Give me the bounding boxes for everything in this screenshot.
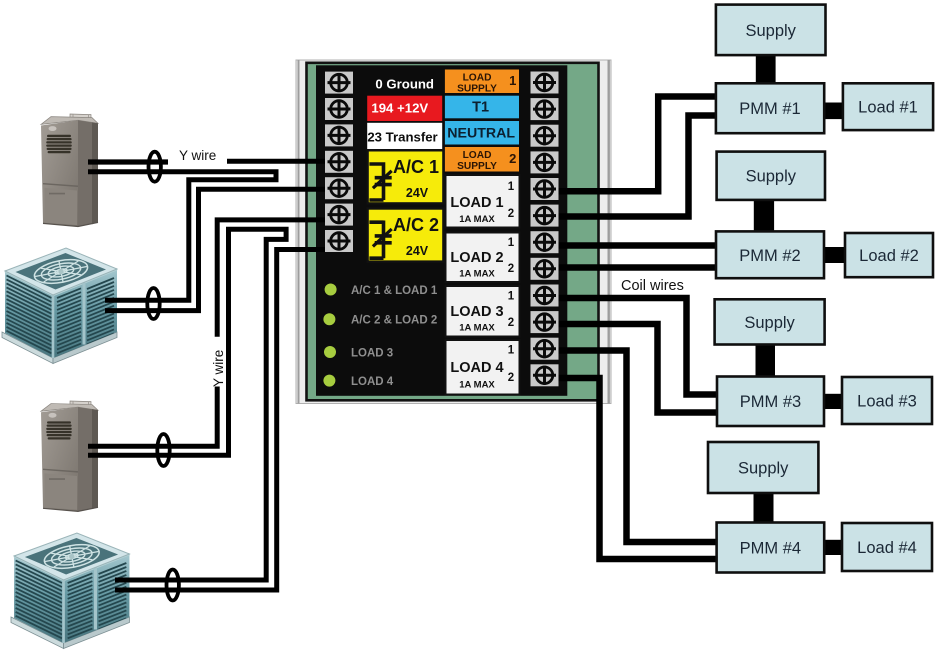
svg-text:Load #2: Load #2 xyxy=(859,247,919,265)
box PMM #3 xyxy=(717,377,824,427)
svg-text:0 Ground: 0 Ground xyxy=(375,76,434,91)
svg-text:1: 1 xyxy=(508,345,515,357)
svg-text:24V: 24V xyxy=(406,186,429,200)
label 194 +12V xyxy=(367,96,442,121)
svg-text:1A MAX: 1A MAX xyxy=(459,214,495,225)
svg-text:PMM #4: PMM #4 xyxy=(740,540,801,558)
choke loop furnace2 xyxy=(157,434,169,466)
terminal screw R4 xyxy=(531,151,559,173)
svg-text:194 +12V: 194 +12V xyxy=(371,100,428,115)
terminal screw R5 xyxy=(531,178,559,200)
coil wire R7 to PMM2 xyxy=(550,242,716,249)
LED A/C2&LOAD2 xyxy=(323,313,335,325)
svg-text:A/C 1: A/C 1 xyxy=(393,157,439,177)
bus Supply1-PMM1 xyxy=(756,53,776,85)
box Supply 3 xyxy=(715,299,825,344)
svg-text:1A MAX: 1A MAX xyxy=(459,269,495,280)
module black terminal panel xyxy=(316,65,567,396)
svg-text:LOAD 4: LOAD 4 xyxy=(351,376,394,388)
wire furnace2 to condenser2 xyxy=(88,229,286,580)
svg-text:SUPPLY: SUPPLY xyxy=(457,84,497,95)
choke loop condenser2 xyxy=(167,570,179,601)
svg-text:SUPPLY: SUPPLY xyxy=(457,161,497,172)
svg-text:2: 2 xyxy=(508,263,514,275)
box Supply 1 xyxy=(716,5,826,56)
svg-text:1A MAX: 1A MAX xyxy=(459,380,495,391)
terminal block LOAD 3 xyxy=(446,286,520,337)
terminal screw R3 xyxy=(531,125,559,147)
svg-text:1A MAX: 1A MAX xyxy=(459,323,495,334)
svg-text:Load #1: Load #1 xyxy=(858,99,918,117)
svg-text:PMM #3: PMM #3 xyxy=(740,393,801,411)
terminal block LOAD 2 xyxy=(446,233,520,283)
bus PMM4-Load4 xyxy=(822,540,844,555)
svg-text:Load #4: Load #4 xyxy=(857,539,917,557)
svg-text:LOAD 3: LOAD 3 xyxy=(351,347,393,359)
bus PMM3-Load3 xyxy=(822,394,844,409)
coil wire R9 to PMM3 xyxy=(550,298,716,395)
svg-text:Coil wires: Coil wires xyxy=(621,278,684,294)
terminal screw R12 xyxy=(531,364,559,386)
box Supply 4 xyxy=(708,442,818,493)
svg-text:LOAD 2: LOAD 2 xyxy=(450,250,503,266)
box Load #1 xyxy=(843,83,933,130)
choke loop condenser1 xyxy=(147,288,159,319)
svg-text:Supply: Supply xyxy=(744,314,795,332)
condenser A/C 1 xyxy=(2,248,117,364)
svg-text:23 Transfer: 23 Transfer xyxy=(367,129,437,144)
relay A/C 2 xyxy=(368,209,444,262)
wire Y furnace1 to terminal 4 (segment b) xyxy=(227,159,341,164)
svg-text:Load #3: Load #3 xyxy=(857,393,917,411)
terminal block LOAD 4 xyxy=(446,340,520,395)
label 23 Transfer xyxy=(367,123,442,149)
LED A/C1&LOAD1 xyxy=(325,284,337,296)
terminal screw R7 xyxy=(531,231,559,253)
bus PMM2-Load2 xyxy=(822,247,845,263)
svg-text:LOAD: LOAD xyxy=(463,73,492,84)
terminal screw R10 xyxy=(531,311,559,333)
svg-text:1: 1 xyxy=(509,73,516,88)
coil wire R6 to PMM1 xyxy=(550,116,716,217)
terminal screw L3 xyxy=(325,124,353,146)
module outer frame xyxy=(296,60,611,404)
svg-text:LOAD 4: LOAD 4 xyxy=(450,360,503,376)
svg-text:Supply: Supply xyxy=(746,168,797,186)
terminal screw L2 xyxy=(325,98,353,120)
terminal block LOAD 1 xyxy=(446,175,520,228)
furnace 1 xyxy=(41,114,98,227)
svg-text:2: 2 xyxy=(508,208,514,220)
coil wire R10 to PMM3 xyxy=(550,324,716,413)
coil wire R8 to PMM2 xyxy=(550,264,716,271)
module green board xyxy=(307,63,599,401)
terminal screw L1 xyxy=(325,72,353,94)
wire terminal 6 to furnace2 (upper, with label gap) xyxy=(217,220,341,337)
label LOAD SUPPLY 2 xyxy=(445,147,519,172)
svg-text:Y wire: Y wire xyxy=(179,148,216,163)
terminal screw L7 xyxy=(325,230,353,252)
svg-text:2: 2 xyxy=(508,317,514,329)
svg-text:LOAD 3: LOAD 3 xyxy=(450,304,503,320)
terminal screw L4 xyxy=(325,151,353,173)
wire furnace1 to condenser1 xyxy=(88,172,276,300)
terminal screw L6 xyxy=(325,204,353,226)
wire terminal 5 to condenser1 xyxy=(105,189,341,310)
svg-text:Supply: Supply xyxy=(745,22,796,40)
box Supply 2 xyxy=(717,152,825,200)
svg-text:1: 1 xyxy=(508,237,515,249)
terminal screw R11 xyxy=(531,338,559,360)
svg-text:A/C 1 & LOAD 1: A/C 1 & LOAD 1 xyxy=(351,285,438,297)
box Load #4 xyxy=(842,523,932,571)
box PMM #4 xyxy=(717,523,825,573)
furnace 2 xyxy=(41,401,98,511)
svg-text:2: 2 xyxy=(508,372,514,384)
coil wire R5 to PMM1 xyxy=(550,97,716,192)
svg-text:T1: T1 xyxy=(472,100,489,116)
LED LOAD4 xyxy=(323,375,335,387)
terminal screw L5 xyxy=(325,177,353,199)
bus PMM1-Load1 xyxy=(822,103,845,120)
svg-text:PMM #1: PMM #1 xyxy=(739,100,800,118)
svg-text:PMM #2: PMM #2 xyxy=(739,247,800,265)
box Load #3 xyxy=(842,377,932,424)
terminal screw R2 xyxy=(531,98,559,120)
label LOAD SUPPLY 1 xyxy=(445,70,519,94)
svg-text:1: 1 xyxy=(508,181,515,193)
svg-text:NEUTRAL: NEUTRAL xyxy=(447,125,515,141)
choke loop furnace1 xyxy=(149,152,161,182)
label NEUTRAL xyxy=(445,121,519,145)
terminal screw R9 xyxy=(531,285,559,307)
svg-text:A/C 2 & LOAD 2: A/C 2 & LOAD 2 xyxy=(351,315,437,327)
svg-text:24V: 24V xyxy=(406,244,429,258)
wire Y furnace1 to terminal 4 (segment a) xyxy=(88,159,168,164)
svg-text:LOAD 1: LOAD 1 xyxy=(450,195,503,211)
svg-text:Y wire: Y wire xyxy=(211,350,226,387)
wire terminal 7 to condenser2 xyxy=(115,250,341,591)
box Load #2 xyxy=(845,233,933,277)
bus Supply3-PMM3 xyxy=(756,342,776,378)
LED LOAD3 xyxy=(324,346,336,358)
terminal screw R1 xyxy=(531,72,559,94)
coil wire R12 to PMM4 xyxy=(550,378,716,559)
svg-text:LOAD: LOAD xyxy=(463,150,492,161)
terminal screw R6 xyxy=(531,205,559,227)
box PMM #1 xyxy=(716,83,824,133)
box PMM #2 xyxy=(716,231,824,278)
svg-text:Supply: Supply xyxy=(738,460,789,478)
label T1 xyxy=(445,96,519,119)
coil wire R11 to PMM4 xyxy=(550,351,716,543)
condenser A/C 2 xyxy=(11,533,129,649)
terminal screw R8 xyxy=(531,258,559,280)
svg-text:2: 2 xyxy=(509,151,516,166)
bus Supply2-PMM2 xyxy=(754,198,774,233)
relay A/C 1 xyxy=(368,150,444,203)
svg-text:1: 1 xyxy=(508,291,515,303)
bus Supply4-PMM4 xyxy=(754,491,774,524)
svg-text:A/C 2: A/C 2 xyxy=(393,215,439,235)
